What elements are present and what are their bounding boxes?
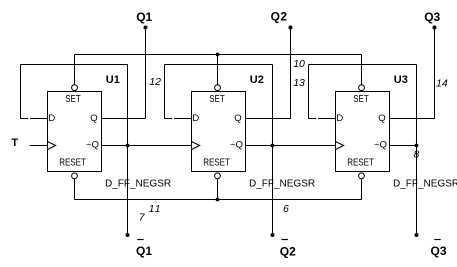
node Q3-bar terminal (415, 233, 419, 237)
svg-text:Q2: Q2 (280, 244, 296, 258)
flip-flop U1 body (48, 92, 102, 172)
wire: U1 RESET pin (74, 179, 76, 200)
svg-text:U1: U1 (106, 74, 120, 86)
wire: U3 D input (309, 118, 317, 120)
wire: T to U1 clock (30, 145, 48, 147)
svg-text:RESET: RESET (203, 157, 230, 168)
label Q3-bar overline (434, 239, 440, 240)
wire: U1 feedback top (21, 64, 128, 66)
svg-text:SET: SET (209, 93, 225, 104)
wire: U3 ~Q riser to Q-bar terminal (416, 65, 418, 236)
svg-text:Q3: Q3 (431, 244, 447, 258)
wire: U3 feedback top (309, 64, 417, 66)
wire: U1 feedback left vertical (20, 65, 22, 119)
junction: U3 ~Q node (415, 144, 419, 148)
wire: U2 D input (165, 118, 173, 120)
svg-text:SET: SET (353, 93, 369, 104)
svg-text:D_FF_NEGSR: D_FF_NEGSR (105, 179, 171, 190)
svg-text:D: D (192, 113, 199, 124)
wire: U2 ~Q output (246, 145, 336, 147)
svg-text:D: D (336, 113, 343, 124)
svg-text:7: 7 (139, 212, 146, 224)
junction: U1 ~Q node (126, 144, 130, 148)
svg-text:D: D (48, 113, 55, 124)
wire: U3 RESET pin (361, 179, 363, 200)
svg-text:Q3: Q3 (424, 10, 440, 24)
node Q1-bar terminal (126, 233, 130, 237)
svg-text:Q: Q (378, 113, 385, 124)
net: RESET line (75, 199, 362, 201)
wire: U2 feedback top (165, 64, 273, 66)
junction: U2 ~Q node (271, 144, 275, 148)
svg-text:10: 10 (293, 58, 305, 70)
wire: U2 RESET pin (217, 179, 219, 200)
wire: U1 Q riser to Q1 terminal (145, 28, 147, 119)
node Q2 terminal (289, 26, 293, 30)
node Q2-bar terminal (271, 233, 275, 237)
node Q1 terminal (144, 26, 148, 30)
svg-text:Q1: Q1 (136, 244, 152, 258)
svg-text:D_FF_NEGSR: D_FF_NEGSR (393, 179, 457, 190)
U1 SET bubble (72, 85, 78, 91)
wire: U3 feedback left vertical (308, 65, 310, 119)
U1 RESET bubble (72, 173, 78, 179)
junction: RESET line at U2 (216, 198, 220, 202)
svg-text:6: 6 (283, 203, 289, 215)
wire: U1 D input (21, 118, 29, 120)
U3 clock triangle (336, 142, 344, 150)
svg-text:RESET: RESET (59, 157, 86, 168)
svg-text:D_FF_NEGSR: D_FF_NEGSR (249, 179, 315, 190)
svg-text:T: T (11, 137, 18, 149)
svg-text:13: 13 (293, 77, 305, 89)
net: SET line (75, 54, 362, 56)
svg-text:Q: Q (234, 113, 241, 124)
U3 SET bubble (359, 85, 365, 91)
svg-text:Q1: Q1 (136, 10, 152, 24)
svg-text:11: 11 (149, 203, 162, 215)
U3 RESET bubble (359, 173, 365, 179)
U2 RESET bubble (215, 173, 221, 179)
svg-text:SET: SET (65, 93, 81, 104)
wire: U3 Q output (390, 118, 435, 120)
label Q1-bar overline (137, 239, 143, 240)
flip-flop U3 body (336, 92, 390, 172)
svg-text:14: 14 (436, 78, 448, 90)
wire: U2 Q riser to Q2 terminal (290, 28, 292, 119)
svg-text:Q: Q (90, 113, 97, 124)
wire: U2 SET pin (217, 55, 219, 85)
svg-text:~Q: ~Q (86, 139, 99, 150)
wire: U3 ~Q output (390, 145, 417, 147)
junction: SET line at U2 (216, 53, 220, 57)
wire: U1 ~Q riser to Q-bar terminal (127, 65, 129, 236)
wire: U1 SET pin (74, 55, 76, 85)
wire: U3 SET pin (361, 55, 363, 85)
svg-text:U2: U2 (250, 74, 264, 86)
svg-text:12: 12 (149, 76, 161, 88)
svg-text:~Q: ~Q (374, 139, 387, 150)
wire: U2 ~Q riser to Q-bar terminal (272, 65, 274, 236)
U2 clock triangle (192, 142, 200, 150)
U2 SET bubble (215, 85, 221, 91)
svg-text:~Q: ~Q (230, 139, 243, 150)
wire: U2 Q output (246, 118, 291, 120)
svg-text:8: 8 (414, 149, 420, 161)
wire: U3 Q riser to Q3 terminal (434, 28, 436, 119)
svg-text:RESET: RESET (347, 157, 374, 168)
wire: U2 feedback left vertical (164, 65, 166, 119)
label Q2-bar overline (282, 239, 288, 240)
wire: U1 Q output (102, 118, 146, 120)
svg-text:Q2: Q2 (271, 9, 288, 23)
U1 clock triangle (48, 142, 56, 150)
node Q3 terminal (433, 26, 437, 30)
wire: U1 ~Q output (102, 145, 192, 147)
flip-flop U2 body (192, 92, 246, 172)
svg-text:U3: U3 (394, 74, 408, 86)
